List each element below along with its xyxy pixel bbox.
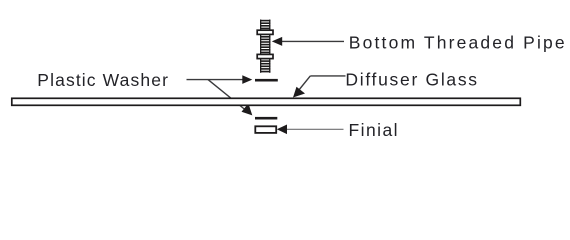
svg-text:Diffuser Glass: Diffuser Glass — [345, 70, 478, 90]
plastic washer (lower, below glass) — [255, 117, 277, 120]
leader line from Plastic Washer label (horizontal, arrow to upper washer) — [187, 75, 253, 84]
leader arrow to diffuser glass — [293, 76, 346, 98]
svg-text:Plastic Washer: Plastic Washer — [37, 70, 169, 90]
leader arrow to bottom threaded pipe — [272, 37, 344, 46]
svg-text:Finial: Finial — [349, 120, 400, 140]
nut N1 (upper hex nut on pipe) — [257, 30, 273, 34]
diffuser glass (long flat pane) — [12, 98, 521, 105]
finial — [255, 126, 276, 133]
leader arrow to finial — [277, 125, 344, 135]
bottom threaded pipe (threaded rod) — [260, 20, 270, 73]
svg-text:Bottom Threaded Pipe: Bottom Threaded Pipe — [349, 33, 567, 53]
leader branch to lower washer (diagonal with arrowhead) — [208, 80, 252, 116]
nut N2 (lower hex nut on pipe) — [257, 54, 273, 58]
plastic washer (upper, above glass) — [255, 79, 278, 82]
